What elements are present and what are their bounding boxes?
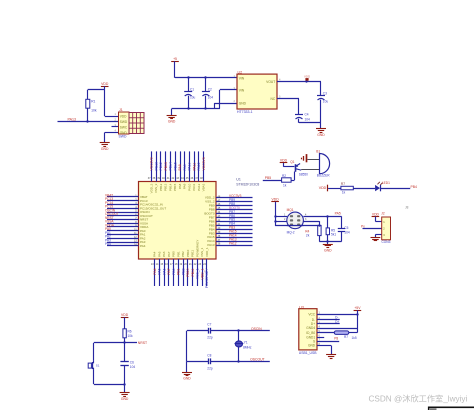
connector J1 SWD header (119, 108, 145, 139)
corner frame element (429, 407, 474, 410)
svg-text:VSS_3: VSS_3 (154, 183, 158, 193)
svg-text:PA4: PA4 (153, 268, 157, 274)
wire collector to buzzer (301, 169, 319, 171)
svg-text:GND4: GND4 (306, 326, 315, 330)
pin name PA13 (207, 243, 214, 247)
op-amp U1 MCU STM32F103 body (139, 182, 217, 260)
wire ground rail (regulator left) (172, 107, 220, 115)
net label PC14 (left pin 3) (105, 201, 113, 205)
svg-text:10k: 10k (128, 334, 134, 338)
svg-text:VSS_1: VSS_1 (196, 268, 200, 279)
wire MCU bottom pin 6 (178, 259, 180, 286)
wire VDD rail under sensor (275, 225, 319, 227)
wire MCU left pin 10 (107, 230, 139, 232)
wire MCU bottom pin 8 (187, 259, 189, 286)
wire MCU left pin 13 (107, 242, 139, 244)
wire MCU left pin 5 (107, 212, 139, 214)
svg-text:VDD: VDD (372, 212, 380, 216)
svg-text:22p: 22p (207, 336, 213, 340)
wire rail crossing sensor (287, 225, 304, 227)
svg-text:VDD: VDD (101, 82, 109, 86)
svg-text:LED1: LED1 (382, 181, 390, 185)
svg-text:GND: GND (183, 377, 191, 381)
svg-text:J1: J1 (119, 108, 123, 112)
net label PB4 (right pin 8) (229, 222, 235, 226)
ground (regulator output) (316, 129, 326, 137)
svg-text:PB15: PB15 (173, 162, 177, 170)
net label PA12 (right pin 13) (229, 241, 237, 245)
power port VDD (MQ sensor) (271, 198, 279, 226)
power port +5 (regulator input) (171, 57, 179, 78)
wire MCU top pin 5 (170, 151, 172, 181)
net label PA8 (top pin 7) (178, 164, 182, 170)
pin name PC15/OSC32_OUT (140, 206, 166, 210)
svg-text:PA13: PA13 (207, 243, 214, 247)
wire base resistor to transistor Q1 (291, 172, 294, 181)
node reset junction (123, 341, 125, 343)
wire MCU top pin 7 (180, 151, 182, 181)
power port VDD (connector J2) (372, 212, 382, 221)
wire MCU right pin 13 (216, 245, 253, 247)
pin name PA0 (140, 229, 146, 233)
pin name OSCOUT (140, 214, 153, 218)
wire LED1 to net PB4 (380, 188, 410, 190)
pin name PB6 (209, 219, 215, 223)
wire VDD to transistor emitter (284, 166, 295, 168)
svg-text:104: 104 (130, 365, 136, 369)
pin numbers MQ sensor (284, 213, 307, 221)
svg-text:R7: R7 (341, 182, 345, 186)
svg-text:C4: C4 (305, 113, 309, 117)
wire regulator VIN2 pin loop (220, 90, 238, 109)
svg-text:GND: GND (317, 133, 325, 137)
svg-text:VDD: VDD (120, 115, 127, 119)
net label PA4 (bottom pin 1) (153, 268, 157, 274)
ground (connector J2) (371, 238, 381, 241)
MCU designator U1 STM32F103C8T6 (236, 178, 259, 187)
svg-text:PA10: PA10 (188, 183, 192, 190)
pin name PB1 (176, 251, 180, 257)
svg-text:POWERKEY: POWERKEY (195, 240, 199, 257)
net label PB3 (right pin 9) (229, 226, 235, 230)
svg-text:S1: S1 (96, 364, 100, 368)
svg-text:PB13: PB13 (164, 183, 168, 191)
svg-text:1k: 1k (283, 183, 287, 187)
pin name NRST (140, 218, 148, 222)
wire MCU bottom pin 2 (159, 259, 161, 286)
wire net to connector pin2 (363, 228, 382, 230)
resistor R7 (USB pin5) (317, 328, 358, 341)
svg-text:Q1: Q1 (290, 160, 294, 164)
net label PB13 (top pin 4) (164, 162, 168, 170)
svg-text:PA9: PA9 (183, 164, 187, 170)
pin name VDD_2 (205, 196, 215, 200)
svg-text:J2: J2 (381, 211, 385, 215)
wire MCU top pin 10 (194, 151, 196, 181)
net label VSS_1 (bottom pin 10) (196, 268, 200, 279)
pin name VDD_1 (205, 247, 209, 257)
wire MCU bottom pin 9 (192, 259, 194, 286)
net label PA14 (right pin 11) (229, 234, 237, 238)
svg-text:ID_B0: ID_B0 (306, 331, 315, 335)
svg-text:GND: GND (308, 344, 316, 348)
net label PA3 (left pin 13) (105, 238, 111, 242)
svg-text:C8: C8 (207, 354, 211, 358)
svg-text:PA9: PA9 (183, 183, 187, 189)
pin numbers regulator (234, 74, 281, 103)
svg-text:P8: P8 (334, 337, 338, 341)
wire bottom rail to ground (reset) (124, 384, 126, 393)
wire MCU left pin 3 (107, 204, 139, 206)
wire VDD to R7 (328, 188, 341, 190)
capacitor C7 (OSCIN) (187, 323, 213, 340)
pin name VDD_3 (150, 183, 154, 193)
buzzer B1 (316, 149, 330, 177)
wire USB VCC to +5V (317, 313, 359, 315)
ground (USB) (326, 355, 336, 359)
pin name VBA3 (202, 183, 206, 191)
capacitor C2 (input) (202, 78, 213, 109)
svg-text:PB2: PB2 (181, 251, 185, 257)
net label PC13 (top pin 2) (154, 162, 158, 171)
svg-text:VDD: VDD (272, 198, 280, 202)
wire net to base resistor (263, 180, 282, 182)
svg-text:GND: GND (168, 120, 176, 124)
svg-text:D+: D+ (335, 320, 339, 324)
wire MCU bottom pin 12 (206, 259, 208, 286)
pin name PB4 (209, 227, 215, 231)
pin name PB12 (159, 183, 163, 191)
pin name PA14 (207, 239, 214, 243)
net label PB14 (top pin 5) (169, 162, 173, 170)
net label PA10 (top pin 9) (188, 162, 192, 170)
net label PC15 (left pin 4) (105, 205, 113, 209)
resistor R4 (heater) (305, 225, 321, 241)
svg-text:PB2: PB2 (181, 268, 185, 275)
node junctions on +5 rail (187, 76, 206, 78)
pin name OSCIN (140, 210, 150, 214)
pin name PB3 (209, 231, 215, 235)
pin name PB0 (172, 251, 176, 257)
net label PB8 (right pin 3) (229, 202, 235, 206)
svg-text:GND: GND (324, 248, 332, 252)
svg-text:1k5: 1k5 (352, 336, 357, 340)
svg-text:OSCOUT: OSCOUT (250, 358, 265, 362)
svg-text:GND: GND (121, 397, 129, 401)
svg-text:C2: C2 (208, 88, 212, 92)
wire MCU left pin 6 (107, 215, 139, 217)
capacitor C8 (OSCOUT) (187, 354, 213, 371)
power port VDD (regulator output) (304, 74, 310, 81)
svg-text:BUZZER: BUZZER (317, 174, 330, 178)
wire MCU right pin 7 (216, 221, 253, 223)
net label OSCIN (left pin 5) (105, 208, 116, 212)
wire MCU left pin 2 (107, 200, 139, 202)
pin name PB5 (209, 223, 215, 227)
wire MCU left pin 9 (107, 226, 139, 228)
svg-text:PB0: PB0 (172, 268, 176, 275)
pin name PA2 (140, 236, 146, 240)
pin name PA15 (207, 235, 214, 239)
svg-text:PB0: PB0 (172, 251, 176, 257)
svg-text:PA5: PA5 (335, 212, 341, 216)
resistor R1 10k pull-up (86, 99, 97, 112)
net label PA13 (right pin 12) (229, 237, 237, 241)
svg-text:+5: +5 (173, 57, 177, 61)
net label PA4 (left pin 14) (105, 242, 111, 246)
pin name VSSA (140, 221, 148, 225)
svg-text:CON3: CON3 (382, 240, 391, 244)
svg-text:104: 104 (305, 118, 311, 122)
svg-text:S8550: S8550 (299, 173, 308, 177)
wire VOUT to VDD (277, 80, 321, 82)
svg-text:10u: 10u (190, 95, 196, 99)
wire MCU top pin 2 (156, 151, 158, 181)
svg-text:GND: GND (101, 147, 109, 151)
wire MCU right pin 2 (216, 201, 253, 203)
wire MCU left pin 7 (107, 219, 139, 221)
wire crystal ground rail (186, 331, 188, 373)
net label OSCOUT (left pin 6) (105, 212, 119, 216)
svg-text:104: 104 (344, 231, 350, 235)
pin name PB15 (173, 183, 177, 191)
pin name PC14/OSC32_IN (140, 203, 163, 207)
pin name PA4 (140, 244, 146, 248)
wire MCU bottom pin 11 (202, 259, 204, 286)
pin name PB13 (164, 183, 168, 191)
svg-text:VIN: VIN (239, 88, 245, 92)
svg-text:PB4: PB4 (411, 185, 418, 189)
svg-text:PA8: PA8 (178, 164, 182, 170)
pin name PA8 (178, 183, 182, 189)
wire MCU right pin 6 (216, 217, 253, 219)
wire MCU bottom pin 4 (168, 259, 170, 286)
pin numbers SWD connector (115, 112, 117, 133)
wire button to bottom rail (94, 370, 125, 385)
net label PA15 (right pin 10) (229, 230, 237, 234)
crystal Y1 8MHz (235, 331, 252, 362)
capacitor C6 (reset) (120, 343, 135, 386)
svg-text:Px: Px (361, 224, 365, 228)
svg-text:PB11: PB11 (191, 268, 195, 276)
wire MCU top pin 9 (189, 151, 191, 181)
wire MCU bottom pin 5 (173, 259, 175, 286)
pin name PB8 (209, 208, 215, 212)
power port +5V (USB) (354, 306, 362, 328)
svg-text:10k: 10k (91, 108, 97, 112)
svg-text:VIN: VIN (239, 76, 245, 80)
svg-text:VOUT: VOUT (266, 80, 275, 84)
net label PA5 (bottom pin 2) (158, 268, 162, 274)
pin numbers USB (319, 312, 321, 346)
pin name PA4 (153, 251, 157, 257)
net label PC13 (left pin 2) (105, 197, 113, 201)
wire VDD to sensor pins (left) (274, 215, 287, 222)
svg-text:R7: R7 (344, 335, 348, 339)
pin name VBAT (140, 195, 148, 199)
svg-text:Y1: Y1 (244, 341, 248, 345)
svg-text:5k1: 5k1 (331, 233, 336, 237)
wire USB pin8 to ground (317, 346, 332, 355)
wire USB pin6 (317, 337, 324, 339)
net label PB9 (right pin 2) (229, 198, 235, 202)
svg-text:SWD: SWD (119, 135, 127, 139)
wire MCU left pin 12 (107, 238, 139, 240)
svg-text:C1: C1 (190, 88, 194, 92)
wire MCU right pin 1 (216, 197, 253, 199)
svg-text:PA5: PA5 (158, 268, 162, 274)
pin name PA1 (140, 233, 146, 237)
power port VDD (LED) (319, 185, 328, 192)
wire reset node branches (94, 342, 137, 344)
net label VBAT (left pin 1) (105, 193, 113, 197)
svg-text:C5: C5 (344, 226, 348, 230)
svg-text:PB5: PB5 (265, 176, 272, 180)
pin name PA9 (183, 183, 187, 189)
svg-text:PA6: PA6 (162, 251, 166, 257)
svg-text:PB15: PB15 (173, 183, 177, 191)
svg-text:C3: C3 (323, 92, 327, 96)
transistor MQ1 gas sensor MQ-2 (287, 208, 304, 234)
transistor Q1 S8550 (290, 160, 308, 177)
svg-text:PB12: PB12 (159, 183, 163, 191)
net label PA9 (top pin 8) (183, 164, 187, 170)
svg-text:PB1: PB1 (177, 268, 181, 275)
svg-text:PA11: PA11 (192, 163, 196, 171)
pin name PA7 (167, 251, 171, 257)
svg-text:VDD_1: VDD_1 (200, 268, 204, 279)
svg-text:PA11: PA11 (192, 183, 196, 190)
wire +5 rail to regulator VIN (175, 77, 237, 79)
svg-text:MQ-2: MQ-2 (287, 230, 295, 234)
wire USB pin4 to +5V corner (317, 328, 357, 330)
pin name PA3 (140, 240, 146, 244)
svg-text:PB1: PB1 (176, 251, 180, 257)
net label PB0 (bottom pin 5) (172, 268, 176, 275)
svg-text:VSS_1: VSS_1 (200, 247, 204, 257)
svg-text:PA8: PA8 (178, 183, 182, 189)
pin name PB9 (209, 204, 215, 208)
svg-text:VDD: VDD (121, 313, 129, 317)
pin name PA11 (192, 183, 196, 190)
capacitor C5 (sensor filter) (338, 216, 350, 241)
capacitor C1 (input) (184, 78, 195, 109)
resistor R2 (base) (282, 174, 292, 187)
power port VDD (reset) (121, 313, 129, 329)
net label VDD_1 (bottom pin 11) (200, 268, 204, 279)
net label VCC3V3 (top pin 12) (202, 157, 206, 170)
wire MCU top pin 8 (184, 151, 186, 181)
net label PB6 (right pin 6) (229, 214, 235, 218)
wire MCU right pin 8 (216, 225, 253, 227)
node junction at R1/net (86, 120, 88, 122)
ground (regulator input) (167, 116, 177, 124)
wire MCU left pin 11 (107, 234, 139, 236)
wire MCU right pin 4 (216, 209, 253, 211)
svg-text:MQ1: MQ1 (287, 208, 294, 212)
net label PA2 (left pin 12) (105, 235, 111, 239)
svg-text:PA4: PA4 (105, 242, 111, 246)
wire MCU top pin 12 (203, 151, 205, 181)
capacitor C3 (output) (317, 82, 328, 123)
pin name VSS_1 (200, 247, 204, 257)
wire connector pin3 to ground (375, 235, 381, 238)
wire MCU right pin 11 (216, 237, 253, 239)
connector J2 3-pin header (381, 211, 390, 244)
svg-text:2k: 2k (306, 234, 310, 238)
svg-text:R6: R6 (128, 329, 132, 333)
svg-text:J8: J8 (405, 206, 409, 210)
svg-text:8MHz: 8MHz (243, 345, 252, 349)
wire MCU bottom pin 10 (197, 259, 199, 286)
net label POWERKEY (bottom pin 12) (205, 268, 209, 288)
svg-text:NC: NC (271, 97, 276, 101)
svg-text:PB14: PB14 (169, 183, 173, 191)
pin name BOOT0 (204, 212, 215, 216)
pin name PB11 (191, 250, 195, 257)
net label PB11 (bottom pin 9) (191, 268, 195, 276)
wire MCU top pin 4 (165, 151, 167, 181)
svg-text:PC13: PC13 (154, 162, 158, 171)
wire MCU left pin 4 (107, 208, 139, 210)
svg-text:SWD: SWD (120, 120, 128, 124)
wire USB pin7 (317, 341, 339, 343)
wire sensor right heater pin down (303, 221, 320, 227)
net label PB15 (top pin 6) (173, 162, 177, 170)
wire MCU bottom pin 3 (164, 259, 166, 286)
wire connector pin4 to ground (105, 133, 119, 144)
net label VCC3V3 (top pin 1) (150, 157, 154, 170)
pin name PA12 (197, 183, 201, 190)
svg-text:PB13: PB13 (164, 162, 168, 170)
svg-text:+5V: +5V (354, 306, 361, 310)
net label PB7 (right pin 5) (229, 210, 235, 214)
svg-text:R1: R1 (91, 100, 95, 104)
svg-text:PA6: PA6 (162, 268, 166, 274)
op-amp U2 regulator HT7333 (237, 70, 277, 114)
svg-text:NRST: NRST (138, 341, 147, 345)
svg-text:PA12: PA12 (197, 162, 201, 170)
svg-text:PA12: PA12 (229, 241, 237, 245)
wire MCU top pin 6 (175, 151, 177, 181)
wire USB D- (317, 319, 340, 321)
net label PA6 (bottom pin 3) (162, 268, 166, 274)
wire C4 to output ground (299, 123, 321, 129)
svg-text:1k: 1k (342, 190, 346, 194)
svg-text:VDD_3: VDD_3 (150, 183, 154, 193)
wire MCU bottom pin 7 (183, 259, 185, 286)
net label NRST (left pin 7) (105, 216, 114, 220)
wire net PA13 to connector pin2 (58, 121, 119, 123)
pin name PA5 (157, 251, 161, 257)
svg-text:C6: C6 (130, 360, 134, 364)
svg-text:VDD: VDD (319, 186, 327, 190)
svg-text:VBA3: VBA3 (202, 183, 206, 191)
svg-text:CSDN @沐欣工作室_lwyiyi: CSDN @沐欣工作室_lwyiyi (369, 394, 468, 404)
svg-text:PB10: PB10 (186, 268, 190, 276)
wire NC pin to capacitor C4 (277, 98, 299, 114)
net label VDDA (left pin 9) (105, 223, 115, 227)
svg-text:OSCIN: OSCIN (251, 327, 262, 331)
net label BOOT0 (right pin 4) (229, 206, 240, 210)
wire C8 to OSCOUT net (211, 360, 270, 362)
svg-text:PA5: PA5 (157, 251, 161, 257)
pin name PB2 (181, 251, 185, 257)
net label PB12 (top pin 3) (159, 162, 163, 170)
net label PB10 (bottom pin 8) (186, 268, 190, 276)
net label VCC3V3 (right pin 1) (229, 194, 242, 198)
wire sensor right pin B to RL node (303, 215, 341, 217)
